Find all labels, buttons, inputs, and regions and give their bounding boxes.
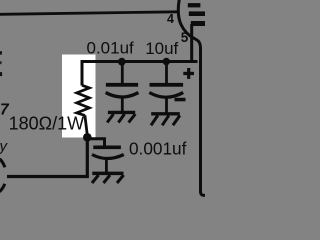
svg-text:180Ω/1W: 180Ω/1W [9,114,85,134]
svg-text:0.001uf: 0.001uf [129,139,187,159]
svg-text:10uf: 10uf [145,39,178,58]
svg-text:7: 7 [0,102,10,119]
svg-text:4: 4 [167,12,174,26]
svg-text:5: 5 [181,30,189,45]
svg-text:0.01uf: 0.01uf [87,39,135,58]
